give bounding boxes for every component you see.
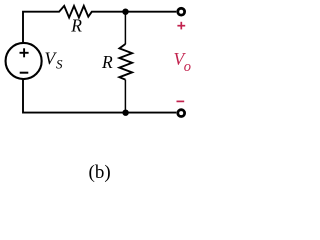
svg-text:(b): (b) — [89, 162, 111, 183]
svg-text:R: R — [101, 52, 113, 72]
svg-text:S: S — [56, 57, 63, 72]
svg-text:R: R — [70, 16, 82, 36]
svg-text:o: o — [184, 59, 191, 75]
